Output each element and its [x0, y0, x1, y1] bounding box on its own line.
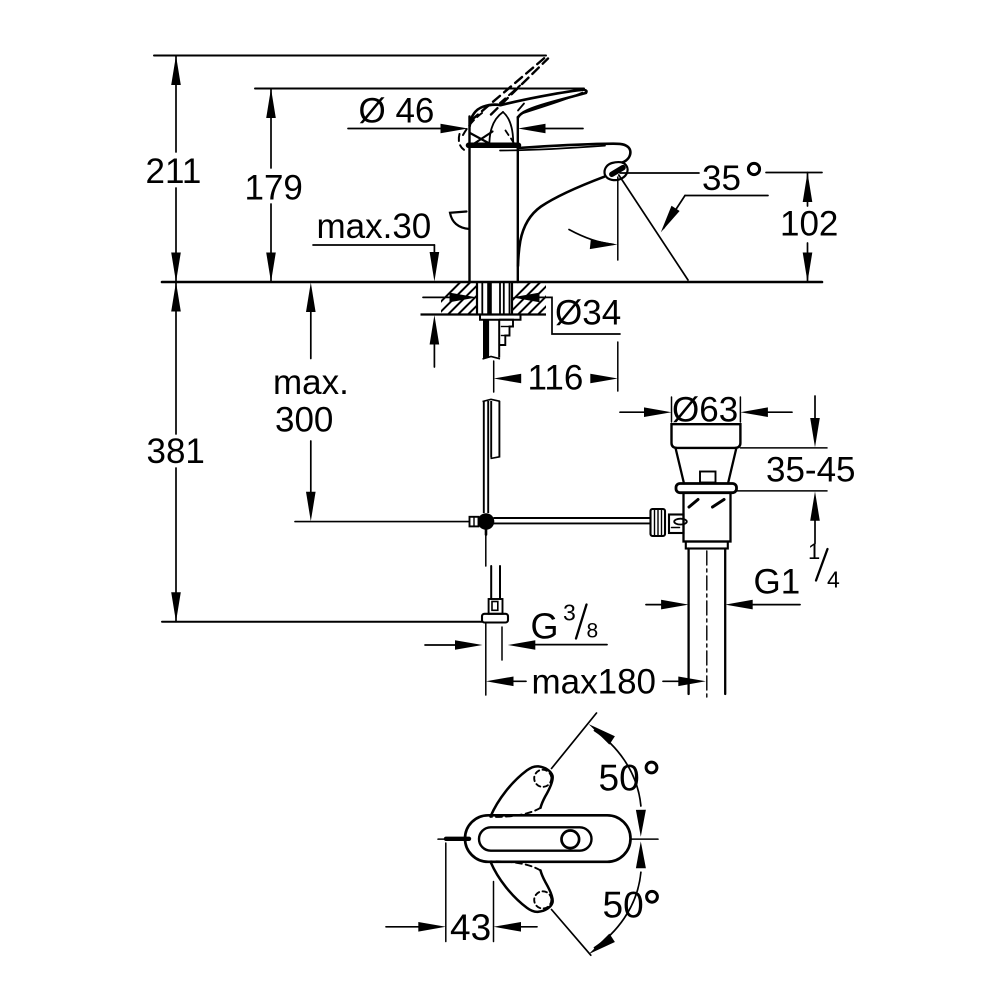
cartridge cap heavy bar	[469, 143, 519, 149]
degree circle for upper 50	[646, 762, 657, 773]
dimension Ø34 leader	[423, 296, 450, 298]
rotated lever lower lobe	[491, 862, 553, 912]
50 degree lower arc	[595, 872, 641, 948]
G1 1/4 fraction slash	[816, 549, 828, 581]
top view inner lever capsule	[479, 827, 592, 850]
svg-text:G1: G1	[754, 563, 801, 602]
dome hidden dashes	[506, 131, 514, 143]
dimension 35-45 upper reference line	[740, 447, 827, 449]
drain lever box	[669, 515, 684, 534]
hose resume cut	[483, 399, 501, 401]
lever inner contour line	[521, 93, 583, 115]
rod clamp screw	[470, 517, 479, 527]
Ø46 left arrow	[441, 124, 469, 134]
50 degree upper ray	[552, 713, 597, 769]
spout underside curve	[518, 177, 604, 266]
dimension 179 vertical line	[270, 89, 272, 169]
top view rod stub	[446, 837, 469, 841]
dimension 43 right extension line	[493, 882, 495, 942]
aerator block	[604, 162, 627, 180]
reference line top of lever at rest (179 top)	[255, 88, 584, 90]
dashed raised lever mid dashes	[500, 86, 520, 104]
dimension Ø63 left arrow	[620, 411, 646, 413]
dimension 211 vertical line	[175, 56, 177, 153]
dashed raised lever line 2	[491, 59, 548, 115]
svg-text:Ø 46: Ø 46	[359, 92, 435, 131]
spout top edge	[518, 144, 631, 163]
lower lobe dashed circle	[534, 891, 551, 908]
dimension Ø46 leader left	[348, 128, 445, 130]
supply tube upper segment	[483, 320, 485, 359]
pop-up rod lower segment	[483, 401, 485, 513]
svg-text:35-45: 35-45	[766, 451, 856, 490]
G1 1/4 right arrow	[725, 600, 753, 610]
spout inner contour line	[500, 146, 605, 151]
drain neck taper	[676, 448, 685, 484]
degree circle for lower 50	[647, 891, 658, 902]
dimension 116 right extension line (aerator drop)	[617, 177, 619, 260]
pop-up knob behind body	[450, 212, 470, 230]
dimension 381 top arrow	[171, 282, 181, 312]
svg-text:35: 35	[702, 159, 741, 198]
dashed raised lever line 1	[471, 58, 545, 121]
svg-text:1: 1	[808, 539, 820, 564]
dimension 179 top arrow	[266, 89, 276, 119]
upper lobe dashed circle	[534, 770, 551, 787]
dimension 35 degree leader from aerator	[620, 172, 699, 174]
handle dome and lever outline	[470, 90, 587, 126]
dimension 116 right arrow	[590, 374, 618, 384]
svg-text:43: 43	[450, 907, 491, 948]
svg-text:381: 381	[147, 432, 205, 471]
dimension 43 right arrow	[494, 922, 522, 932]
svg-text:4: 4	[827, 567, 840, 593]
svg-text:max.: max.	[273, 363, 349, 402]
tailpipe centerline	[706, 551, 708, 699]
drain rubber gasket	[676, 484, 737, 493]
35 degree arrowhead	[661, 206, 680, 233]
svg-text:179: 179	[245, 169, 303, 208]
dimension 116 left arrow	[494, 374, 522, 384]
reference line top of raised lever (211 top)	[154, 55, 546, 57]
drain neck tab	[700, 472, 716, 483]
G1 1/4 left arrow	[646, 604, 663, 606]
ball joint	[478, 513, 495, 530]
drain flange extension ticks	[671, 397, 673, 422]
dimension 211 top arrow	[171, 56, 181, 86]
dimension Ø63 right arrow	[740, 407, 768, 417]
max.300 dimension down arrow	[310, 441, 312, 495]
svg-text:102: 102	[780, 205, 838, 244]
svg-text:Ø34: Ø34	[555, 294, 621, 333]
svg-text:50: 50	[599, 758, 640, 799]
counter thickness up arrow below slab	[430, 315, 440, 345]
35 degree right segment to 102 extension	[766, 172, 822, 174]
countertop line	[162, 281, 822, 284]
faucet body left edge	[468, 117, 470, 283]
G 3/8 flange nut	[482, 614, 508, 623]
economy click cross	[470, 133, 494, 146]
G 3/8 fraction slash	[576, 605, 587, 639]
Ø46 right arrow	[518, 124, 546, 134]
water stream line	[619, 175, 688, 280]
svg-text:max.30: max.30	[317, 207, 432, 246]
dashed rotated dome edge	[463, 113, 482, 135]
degree circle for 35	[748, 163, 759, 174]
faucet body right edge	[517, 117, 519, 282]
svg-text:max180: max180	[532, 663, 657, 702]
dimension G1 1/4 extension ticks	[688, 600, 690, 618]
pop-up rod horizontal reference line	[295, 521, 469, 523]
threaded shank verticals	[476, 282, 478, 315]
max.300 dimension up arrow	[306, 283, 316, 313]
dimension 381 vertical line	[175, 282, 177, 434]
svg-text:300: 300	[275, 401, 333, 440]
svg-text:50: 50	[603, 885, 644, 926]
dome inner arc right	[503, 112, 513, 142]
dimension 35-45 lower reference line	[737, 490, 828, 492]
dome inner arc left	[489, 112, 503, 143]
svg-text:3: 3	[563, 600, 576, 626]
35 degree underline	[685, 195, 768, 197]
washer under counter	[480, 315, 521, 320]
svg-text:G: G	[531, 606, 559, 647]
rotated lever upper lobe	[491, 766, 553, 816]
max.30 down arrow to countertop	[430, 252, 440, 282]
svg-text:8: 8	[587, 620, 599, 643]
dimension 43 left arrow	[386, 926, 420, 928]
dimension 102 vertical line	[807, 173, 809, 207]
dimension 381 bottom arrow	[171, 592, 181, 622]
svg-text:Ø63: Ø63	[672, 391, 738, 430]
knurled coupling nut	[651, 509, 666, 536]
counter slab bottom line	[421, 313, 547, 315]
top view outer body capsule	[465, 815, 631, 862]
stepped mounting nut	[499, 320, 513, 345]
hose lower segment	[490, 401, 492, 458]
dimension 211 bottom arrow	[171, 253, 181, 283]
pop-up rod in shank	[485, 320, 489, 358]
dimension max.30 underline and leader	[313, 244, 434, 246]
dimension max180 left arrow	[486, 677, 514, 687]
dimension 43 left extension line	[445, 843, 447, 942]
drain outlet collar	[686, 542, 728, 549]
drain valve body	[684, 493, 731, 542]
35 degree leader diagonal	[664, 196, 686, 229]
valve body slots	[689, 500, 698, 508]
dimension 116 left extension line	[493, 361, 495, 392]
rod extension line below ball	[485, 530, 487, 566]
dimension 102 top arrow	[803, 173, 813, 203]
50 degree upper arc	[595, 731, 641, 807]
supply hose to angle valve	[490, 566, 492, 599]
svg-text:211: 211	[146, 152, 202, 191]
svg-text:116: 116	[528, 359, 584, 398]
hose connector nut	[489, 599, 503, 614]
dashed dome arc lower left	[459, 134, 464, 150]
dimension G 3/8 arrows	[425, 644, 456, 646]
dimension max180 right arrow	[663, 680, 680, 682]
top view centerline right segment	[578, 838, 658, 840]
drain lever pivot	[674, 519, 687, 525]
center extension line below flange	[485, 623, 487, 696]
35-45 upper arrow	[814, 396, 816, 422]
horizontal pop-up rod to drain	[494, 517, 651, 519]
bottom reference line (381 bottom)	[162, 621, 482, 623]
50 degree lower ray	[552, 910, 591, 956]
top view centerline left segment	[438, 838, 466, 840]
dimension 102 bottom arrow	[803, 253, 813, 283]
35-45 lower arrow	[810, 491, 820, 520]
drain tailpipe	[687, 549, 689, 695]
top view pivot circle	[562, 831, 580, 849]
dimension 179 bottom arrow	[266, 253, 276, 283]
swivel arc with arrow	[569, 230, 613, 245]
drain waste flange	[672, 424, 741, 448]
tube cut jag	[483, 357, 501, 360]
